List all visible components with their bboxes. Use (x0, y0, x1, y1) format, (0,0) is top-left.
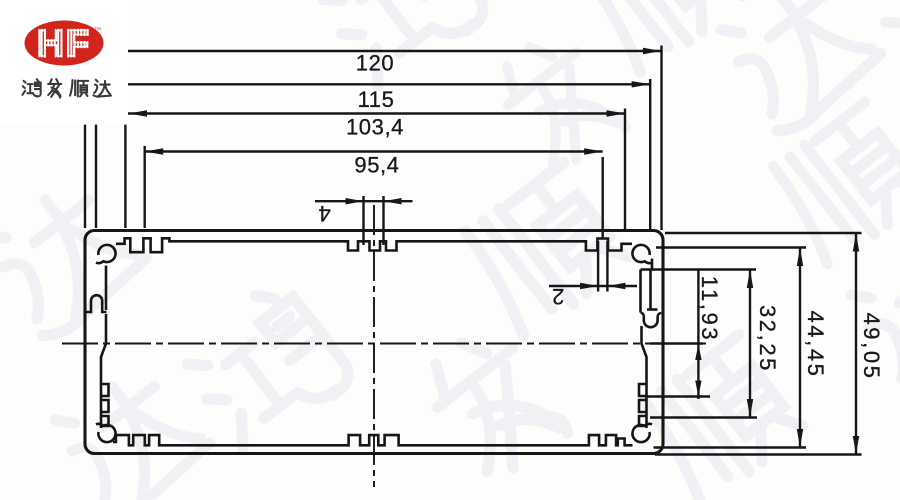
dim 120 line (128, 50, 662, 52)
svg-text:115: 115 (358, 87, 395, 112)
dim 103,4 line (128, 112, 625, 114)
inner top edge with teeth (116, 238, 632, 252)
dim 32,25 vertical (749, 270, 751, 418)
dim 2 line (549, 285, 637, 287)
svg-text:4: 4 (318, 201, 331, 226)
dim 11,93 vertical (697, 270, 699, 400)
right extension lines (645, 233, 862, 455)
logo chinese text 鸿发顺达 (drawn strokes) (22, 79, 111, 98)
svg-text:95,4: 95,4 (354, 153, 399, 178)
right inner wall upper (641, 270, 651, 313)
svg-text:32,25: 32,25 (755, 305, 780, 373)
centerline horizontal (62, 343, 706, 345)
top extension lines left (85, 125, 145, 228)
dim 4 extension lines (364, 196, 384, 245)
top-left corner boss (96, 245, 116, 263)
top-right corner boss (632, 245, 652, 263)
centerline vertical (373, 205, 375, 487)
dim 2 extension lines (598, 241, 607, 292)
right keyhole (641, 310, 662, 328)
svg-text:120: 120 (356, 51, 395, 76)
svg-text:49,05: 49,05 (859, 312, 884, 380)
left wall below centerline with steps (101, 344, 109, 429)
svg-text:™: ™ (94, 27, 101, 34)
top extension lines right (603, 46, 662, 240)
dim 44,45 vertical (799, 248, 801, 448)
dimension texts (318, 51, 884, 381)
svg-text:HF: HF (37, 23, 90, 64)
inner bottom edge with teeth (113, 435, 633, 445)
dim 49,05 vertical (855, 233, 857, 455)
bottom-left corner boss (96, 424, 116, 442)
logo ellipse (25, 21, 104, 66)
left inner wall upper (105, 266, 108, 311)
dim 115 line (128, 83, 650, 85)
bottom-right corner boss (632, 424, 652, 442)
svg-text:103,4: 103,4 (346, 115, 404, 140)
dim 4 line (315, 200, 413, 202)
left keyhole (86, 295, 107, 343)
outer profile (85, 231, 663, 454)
svg-text:11,93: 11,93 (697, 276, 722, 342)
right wall step (641, 259, 653, 270)
logo white box (0, 0, 128, 124)
right wall below keyhole with steps (639, 326, 647, 428)
svg-text:44,45: 44,45 (803, 310, 828, 378)
dim 95,4 line (145, 150, 603, 152)
svg-text:2: 2 (552, 284, 565, 309)
